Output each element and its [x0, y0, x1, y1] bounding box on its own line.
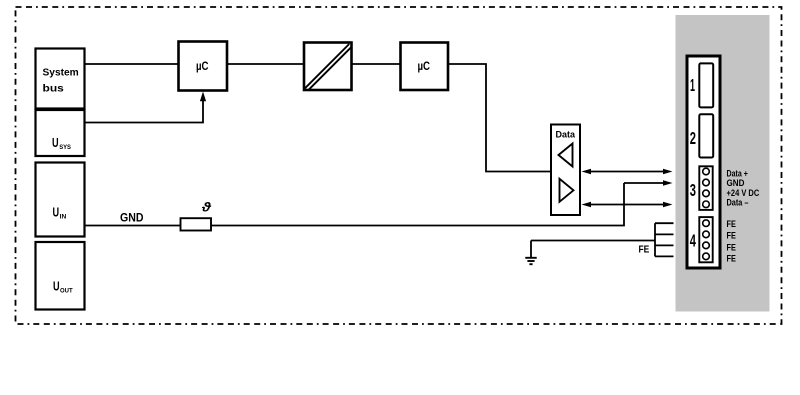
box U_IN input supply — [36, 163, 85, 237]
svg-text:2: 2 — [690, 128, 696, 148]
svg-text:Data –: Data – — [727, 198, 749, 208]
arrowhead into uC U1 — [200, 92, 206, 102]
svg-text:ϑ: ϑ — [201, 201, 212, 215]
gray module panel — [676, 15, 770, 312]
svg-text:bus: bus — [43, 84, 65, 95]
svg-text:FE: FE — [727, 242, 736, 252]
wire U_IN GND rail — [84, 183, 624, 226]
galvanic isolation barrier — [304, 43, 352, 91]
dash-dot boundary frame — [16, 7, 782, 324]
wire U_SYS to uC U1 supply — [84, 96, 203, 123]
wire ground to FE rail — [531, 240, 655, 242]
svg-text:System: System — [43, 68, 79, 79]
uC U1 bus controller — [179, 42, 228, 91]
svg-text:Data +: Data + — [727, 169, 748, 179]
svg-text:SYS: SYS — [59, 144, 71, 151]
svg-text:GND: GND — [120, 211, 144, 225]
svg-text:µC: µC — [418, 59, 431, 73]
FE distribution comb — [654, 223, 656, 256]
Data- bidirectional arrow — [589, 204, 665, 206]
GND arrow into terminal — [624, 182, 665, 184]
contact slot 2 — [699, 114, 713, 157]
transmit triangle — [560, 179, 574, 202]
svg-text:FE: FE — [727, 219, 736, 229]
uC U2 IO-Link controller — [401, 43, 449, 91]
ground symbol — [530, 241, 532, 258]
svg-text:µC: µC — [196, 59, 209, 73]
contact slot 1 — [699, 63, 713, 107]
svg-text:FE: FE — [639, 244, 650, 256]
svg-text:FE: FE — [727, 254, 736, 264]
box U_SYS system supply — [36, 110, 85, 156]
svg-text:U: U — [53, 278, 60, 293]
connector block outer housing — [687, 56, 720, 268]
svg-text:FE: FE — [727, 231, 736, 241]
box U_OUT output supply — [36, 242, 85, 310]
svg-text:Data: Data — [556, 130, 576, 141]
svg-text:GND: GND — [727, 178, 745, 188]
Data transceiver box — [551, 125, 580, 216]
box System bus — [36, 49, 85, 109]
thermal fuse F1 — [181, 218, 212, 230]
svg-text:1: 1 — [690, 75, 695, 95]
terminal 3 contacts — [703, 168, 710, 175]
wire System bus to uC U1 — [84, 63, 179, 65]
wire uC U2 to Data transceiver — [448, 64, 551, 172]
wire uC U1 to isolator — [227, 63, 304, 65]
Data+ bidirectional arrow — [589, 171, 665, 173]
terminal block 4 — [699, 217, 712, 262]
svg-text:U: U — [53, 205, 60, 220]
terminal 4 contacts — [703, 220, 710, 227]
svg-text:OUT: OUT — [60, 287, 73, 294]
wire isolator to uC U2 — [351, 63, 400, 65]
svg-text:3: 3 — [690, 180, 696, 200]
terminal block 3 — [699, 166, 712, 210]
svg-text:IN: IN — [60, 214, 67, 221]
receive triangle — [559, 144, 573, 167]
svg-text:+24 V DC: +24 V DC — [727, 188, 760, 198]
svg-text:4: 4 — [690, 230, 696, 250]
svg-text:U: U — [52, 135, 59, 150]
